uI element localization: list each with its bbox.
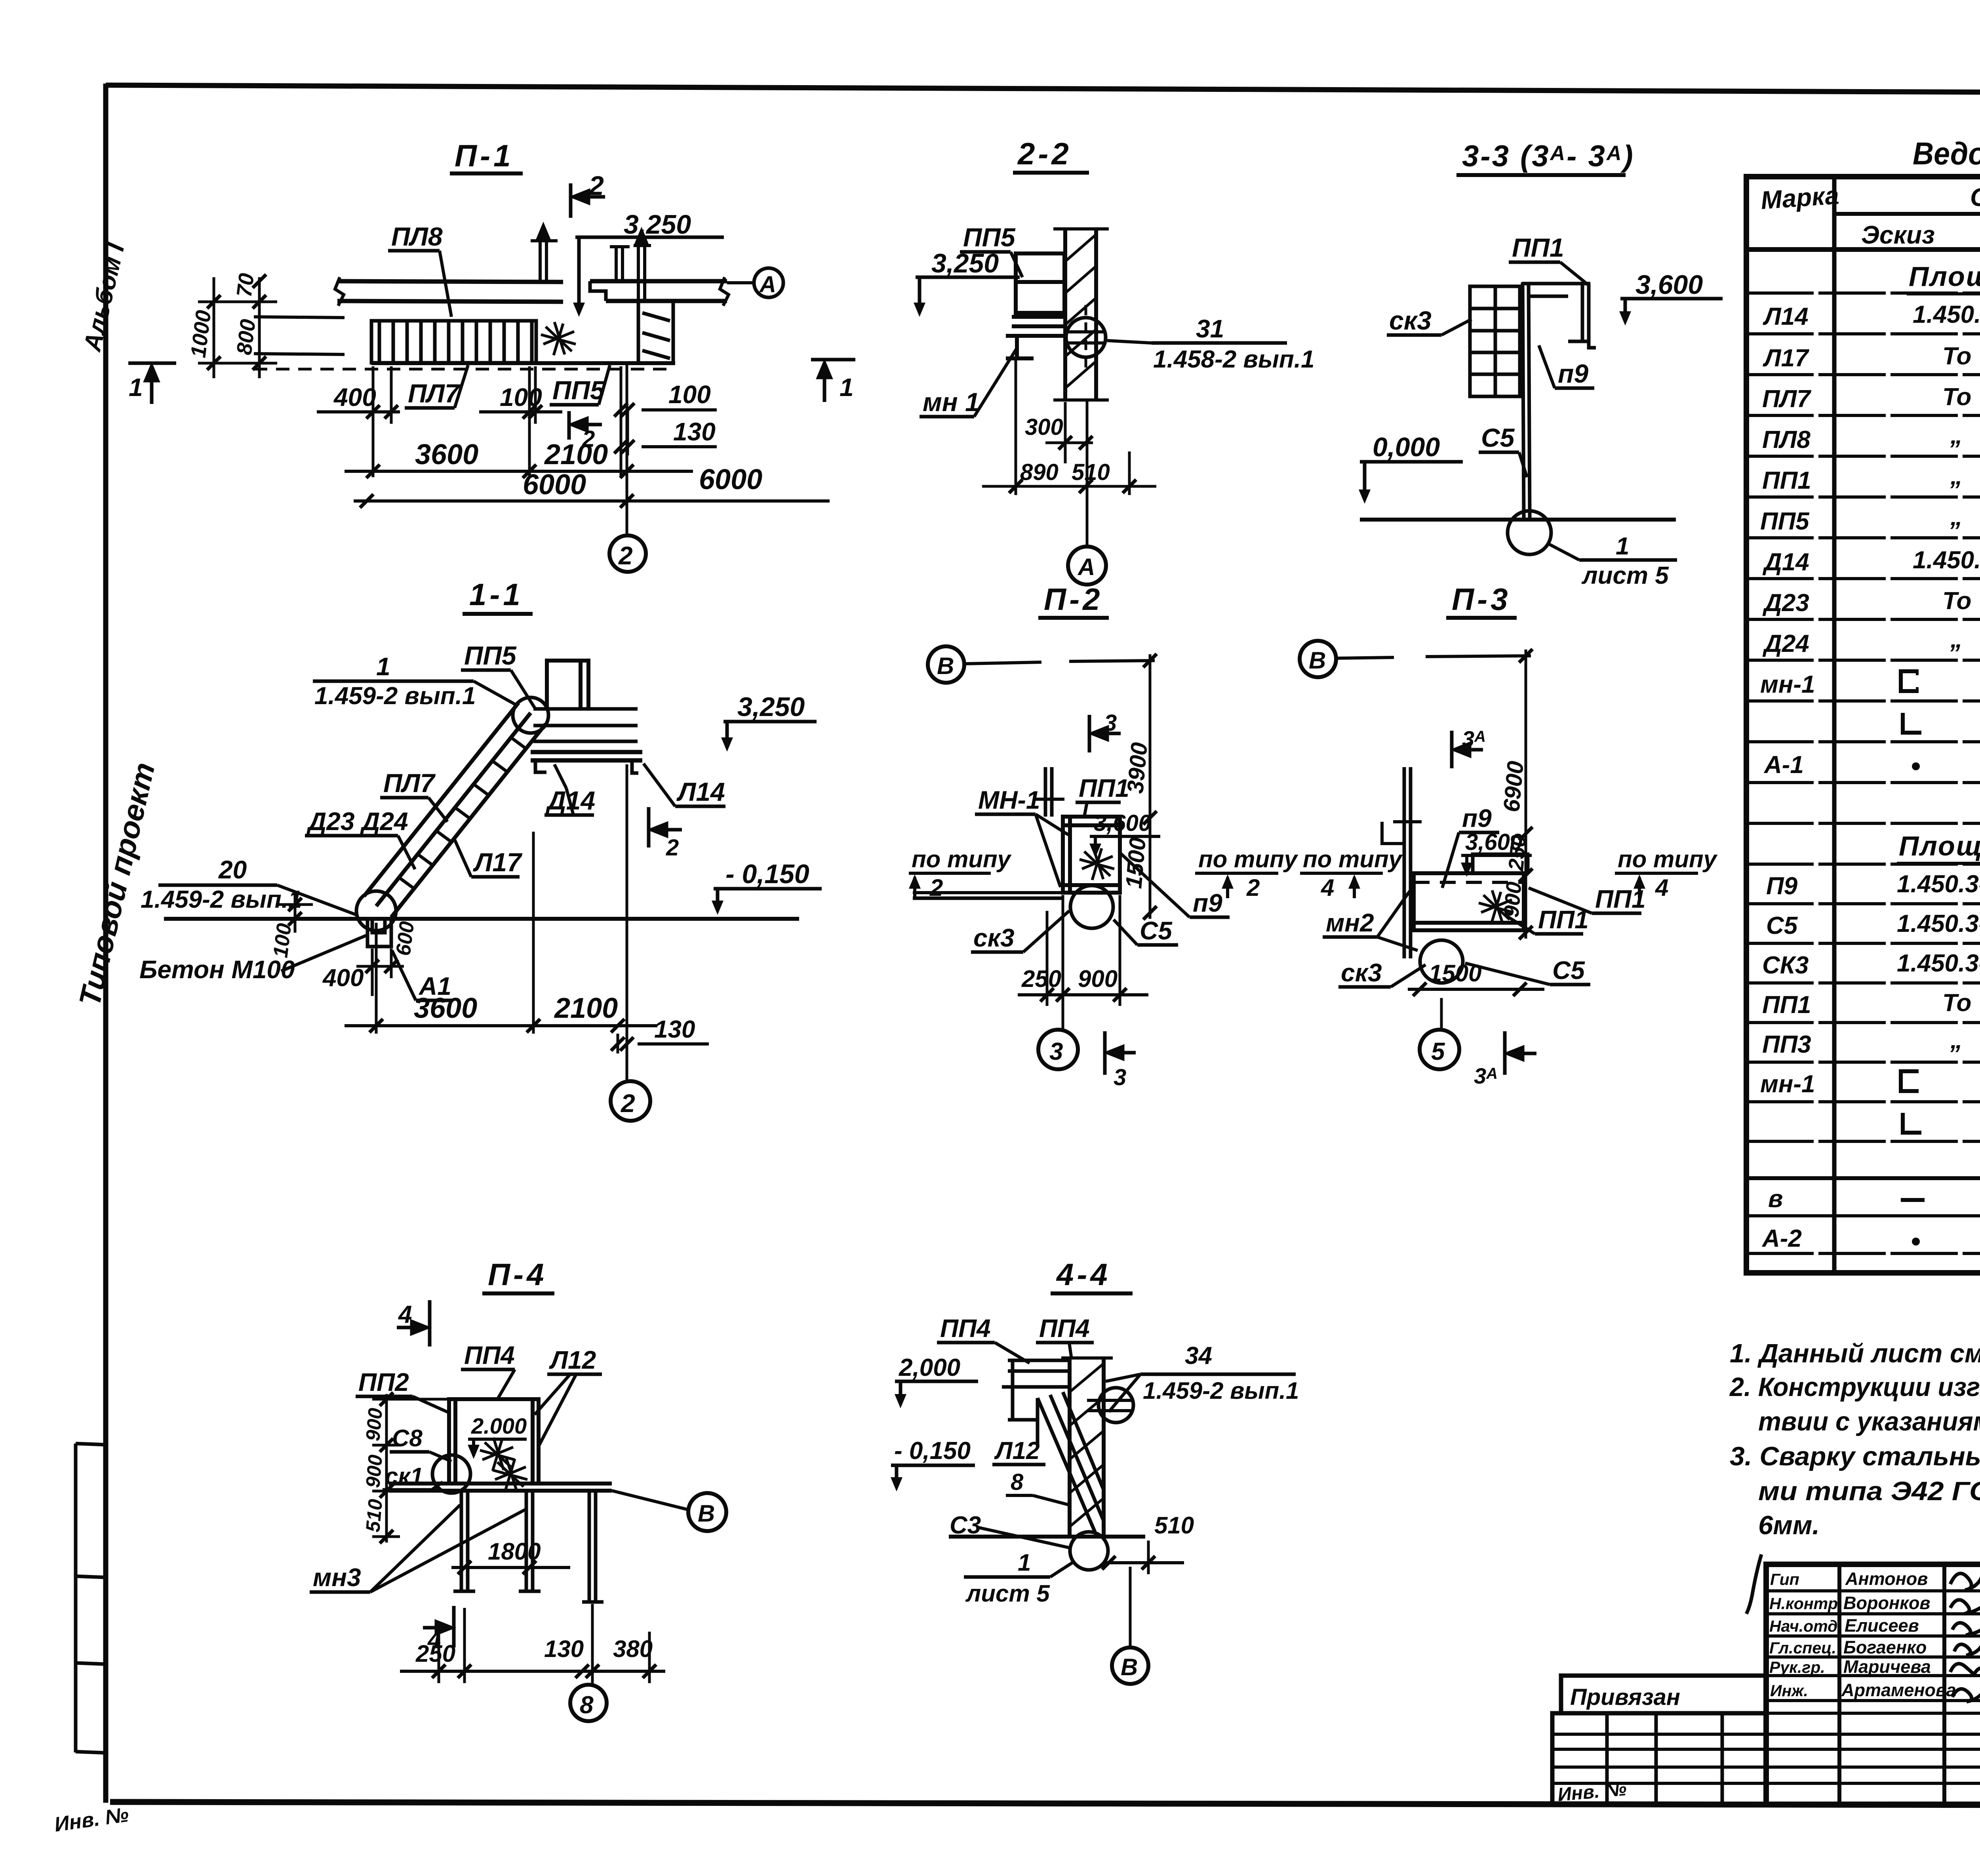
axis line and dims bbox=[626, 764, 628, 1081]
svg-text:А: А bbox=[759, 272, 776, 297]
platform post bbox=[547, 661, 588, 709]
svg-text:п9: п9 bbox=[1193, 889, 1222, 917]
channel sketch МН-1 second bbox=[1901, 1071, 1925, 1200]
axis 3 circle bbox=[1038, 1030, 1078, 1069]
svg-text:ск3: ск3 bbox=[973, 924, 1015, 952]
svg-text:1.459-2 вып.1: 1.459-2 вып.1 bbox=[141, 886, 302, 913]
weld circle bbox=[1508, 511, 1551, 554]
platform box bbox=[1414, 873, 1524, 930]
axis line and А circle bbox=[1086, 402, 1089, 546]
svg-text:Артаменова: Артаменова bbox=[1841, 1680, 1956, 1700]
svg-text:2-2: 2-2 bbox=[1017, 136, 1072, 171]
svg-text:1.450.3-3, вып. 2: 1.450.3-3, вып. 2 bbox=[1897, 870, 1980, 898]
vertical dim 3900 1500 bbox=[1149, 654, 1152, 919]
svg-text:ПП1: ПП1 bbox=[1512, 233, 1564, 262]
svg-text:ПП1: ПП1 bbox=[1762, 991, 1811, 1019]
svg-text:В: В bbox=[937, 653, 954, 679]
svg-text:Бетон М100: Бетон М100 bbox=[139, 955, 295, 984]
svg-text:400: 400 bbox=[322, 964, 364, 992]
platform railing and deck bbox=[531, 709, 642, 773]
svg-text:2: 2 bbox=[588, 171, 604, 201]
svg-text:Рук.гр.: Рук.гр. bbox=[1769, 1658, 1825, 1676]
svg-text:6900: 6900 bbox=[1498, 760, 1529, 813]
table column line Марка bbox=[1832, 177, 1837, 1273]
svg-text:Елисеев: Елисеев bbox=[1845, 1615, 1919, 1636]
svg-text:Привязан: Привязан bbox=[1570, 1684, 1680, 1710]
vertical dim 100 at node bbox=[277, 891, 313, 933]
page frame left bbox=[103, 84, 109, 1803]
svg-text:- 0,150: - 0,150 bbox=[725, 859, 809, 889]
section mark 2 bottom bbox=[569, 411, 602, 440]
svg-text:ПЛ7: ПЛ7 bbox=[383, 768, 436, 798]
post bbox=[1403, 767, 1406, 958]
row lines section 1 bbox=[1746, 291, 1980, 295]
svg-text:В: В bbox=[698, 1500, 715, 1527]
svg-text:2100: 2100 bbox=[554, 992, 618, 1024]
svg-text:Л14: Л14 bbox=[1763, 303, 1809, 330]
weld circle П-4 bbox=[432, 1455, 470, 1493]
channel sketch МН-1 bbox=[1901, 671, 1921, 733]
angle sketch L bbox=[1903, 713, 1921, 733]
svg-text:380: 380 bbox=[613, 1636, 653, 1662]
svg-text:3: 3 bbox=[1114, 1065, 1126, 1090]
svg-text:900: 900 bbox=[1078, 966, 1118, 992]
ground line bbox=[164, 917, 799, 921]
svg-text:4: 4 bbox=[398, 1301, 412, 1328]
svg-text:С5: С5 bbox=[1481, 423, 1515, 452]
page frame bottom bbox=[110, 1802, 1980, 1806]
svg-text:А: А bbox=[1077, 554, 1095, 580]
anchor bolt circle 4-4 bbox=[1099, 1388, 1133, 1423]
svg-text:3: 3 bbox=[1104, 710, 1117, 736]
rebar dot А-2 bbox=[1912, 1238, 1920, 1246]
svg-text:Антонов: Антонов bbox=[1845, 1569, 1928, 1589]
svg-text:1: 1 bbox=[129, 373, 143, 402]
svg-text:8: 8 bbox=[1011, 1469, 1024, 1495]
section mark 1 left bbox=[128, 363, 176, 404]
svg-text:мн 1: мн 1 bbox=[923, 387, 980, 417]
svg-text:Л17: Л17 bbox=[1763, 345, 1809, 372]
axis В circle bottom bbox=[1112, 1647, 1148, 1684]
svg-text:А-1: А-1 bbox=[1763, 751, 1804, 779]
post bbox=[1523, 282, 1524, 520]
svg-text:ПП5: ПП5 bbox=[464, 641, 517, 670]
svg-text:8: 8 bbox=[580, 1691, 594, 1719]
beam line left bbox=[913, 897, 1063, 900]
top bracket 4-4 bbox=[1002, 1360, 1070, 1420]
svg-text:6мм.: 6мм. bbox=[1758, 1510, 1820, 1540]
svg-text:ПП3: ПП3 bbox=[1762, 1031, 1811, 1058]
svg-text:20: 20 bbox=[218, 855, 247, 884]
svg-text:1800: 1800 bbox=[488, 1538, 541, 1565]
svg-text:Сечение: Сечение bbox=[1970, 183, 1980, 211]
diagonal braces bbox=[1038, 1392, 1104, 1532]
anchor bolt circle bbox=[1066, 318, 1106, 357]
foundation pad bbox=[367, 919, 391, 947]
svg-text:2: 2 bbox=[618, 541, 633, 570]
svg-text:4: 4 bbox=[1655, 874, 1668, 901]
svg-text:С5: С5 bbox=[1766, 912, 1798, 939]
svg-text:„: „ bbox=[1950, 503, 1963, 531]
svg-text:3,250: 3,250 bbox=[931, 248, 999, 278]
svg-text:Гл.спец.: Гл.спец. bbox=[1769, 1639, 1836, 1657]
dims 890 510 bbox=[982, 360, 1156, 495]
column hatched bbox=[1061, 1358, 1113, 1537]
svg-text:То: То bbox=[1942, 989, 1971, 1017]
svg-text:900: 900 bbox=[362, 1454, 386, 1489]
svg-text:1: 1 bbox=[840, 373, 854, 402]
svg-text:ПП5: ПП5 bbox=[963, 223, 1016, 252]
stray pen stroke left of ГИП bbox=[1746, 1554, 1761, 1614]
svg-text:1: 1 bbox=[1018, 1549, 1031, 1576]
weld circle П-2 bbox=[1070, 886, 1113, 928]
top bracket П9 bbox=[1522, 284, 1596, 348]
svg-text:ПП4: ПП4 bbox=[464, 1341, 515, 1369]
svg-text:31: 31 bbox=[1196, 314, 1224, 343]
title block outer border bbox=[1766, 1564, 1980, 1804]
svg-text:800: 800 bbox=[232, 318, 260, 356]
svg-text:3,600: 3,600 bbox=[1635, 270, 1703, 300]
axis 2 circle bottom bbox=[611, 1081, 650, 1121]
svg-text:ПП5: ПП5 bbox=[552, 375, 605, 405]
svg-text:3,600: 3,600 bbox=[1465, 829, 1523, 855]
svg-text:по типу: по типу bbox=[1618, 846, 1718, 872]
svg-text:2.000: 2.000 bbox=[471, 1413, 527, 1438]
svg-text:510: 510 bbox=[362, 1498, 386, 1533]
svg-text:1. Данный лист см. с листо: 1. Данный лист см. с листом КМ-5. bbox=[1730, 1339, 1980, 1368]
svg-text:100: 100 bbox=[668, 380, 711, 409]
ground line bbox=[1360, 518, 1676, 522]
svg-text:Марка: Марка bbox=[1760, 181, 1840, 215]
svg-text:Нач.отд.: Нач.отд. bbox=[1769, 1617, 1842, 1635]
svg-text:п9: п9 bbox=[1558, 359, 1588, 388]
svg-text:2: 2 bbox=[621, 1089, 635, 1118]
weld circle top node bbox=[513, 697, 548, 733]
svg-text:А-2: А-2 bbox=[1761, 1225, 1802, 1252]
slab left band bbox=[335, 277, 563, 306]
section mark 2 right bbox=[649, 807, 682, 848]
svg-text:2: 2 bbox=[666, 835, 679, 861]
svg-text:мн-1: мн-1 bbox=[1760, 1070, 1815, 1098]
svg-text:Эскиз: Эскиз bbox=[1861, 221, 1935, 249]
svg-text:ПП5: ПП5 bbox=[1760, 508, 1810, 535]
svg-text:Л12: Л12 bbox=[994, 1437, 1040, 1465]
hidden dashed line bbox=[254, 368, 673, 371]
svg-text:ск3: ск3 bbox=[1341, 958, 1382, 987]
svg-text:Л17: Л17 bbox=[473, 848, 523, 877]
svg-text:890: 890 bbox=[1020, 459, 1059, 485]
table rows section 1 texts bbox=[1760, 301, 1980, 782]
svg-text:Л12: Л12 bbox=[549, 1346, 596, 1374]
svg-text:мн3: мн3 bbox=[313, 1563, 361, 1592]
section mark 3А bottom bbox=[1505, 1031, 1536, 1075]
svg-text:1.450.3-3, вып. 2: 1.450.3-3, вып. 2 bbox=[1897, 950, 1980, 977]
svg-text:п9: п9 bbox=[1462, 804, 1492, 832]
svg-text:1: 1 bbox=[376, 652, 390, 681]
svg-text:130: 130 bbox=[673, 417, 716, 446]
svg-text:5: 5 bbox=[1431, 1038, 1445, 1065]
left vertical dims 1000 800 70 bbox=[198, 277, 277, 378]
axis В circle left bbox=[1300, 641, 1336, 677]
svg-text:ПЛ8: ПЛ8 bbox=[1762, 426, 1811, 453]
section mark 4 top bbox=[397, 1300, 430, 1347]
svg-text:2: 2 bbox=[1246, 874, 1260, 901]
svg-text:100: 100 bbox=[269, 922, 296, 959]
svg-text:510: 510 bbox=[1154, 1512, 1194, 1539]
svg-text:2. Конструкции изготовляются: 2. Конструкции изготовляются и монтируют… bbox=[1729, 1372, 1980, 1402]
svg-text:мн-1: мн-1 bbox=[1760, 671, 1815, 698]
svg-text:1-1: 1-1 bbox=[469, 577, 524, 612]
axis А circle bbox=[754, 268, 783, 297]
svg-text:3. Сварку стальных конструкц: 3. Сварку стальных конструкций производи… bbox=[1730, 1442, 1980, 1471]
table outer border bbox=[1746, 177, 1980, 1273]
stair stringer bbox=[364, 703, 546, 917]
svg-text:3600: 3600 bbox=[415, 439, 478, 470]
vertical dim 6900 250 900 bbox=[1525, 649, 1527, 939]
svg-text:С3: С3 bbox=[950, 1512, 981, 1539]
platform box bbox=[1063, 817, 1120, 893]
railing post middle bbox=[531, 226, 558, 281]
signature area row lines bbox=[1766, 1589, 1980, 1592]
rebar dot А-1 bbox=[1912, 762, 1920, 770]
stringer rungs bbox=[399, 737, 526, 889]
svg-text:П-2: П-2 bbox=[1044, 582, 1103, 617]
svg-text:ПП1: ПП1 bbox=[1079, 774, 1129, 802]
svg-text:Маричева: Маричева bbox=[1843, 1657, 1931, 1677]
svg-text:ПП4: ПП4 bbox=[1039, 1314, 1090, 1343]
svg-text:лист 5: лист 5 bbox=[1581, 562, 1669, 589]
stair flight plan bbox=[371, 321, 536, 363]
section mark 3 bottom bbox=[1105, 1031, 1136, 1075]
svg-text:П-3: П-3 bbox=[1452, 582, 1511, 617]
svg-text:С5: С5 bbox=[1140, 916, 1173, 945]
table header labels bbox=[1760, 181, 1980, 249]
svg-text:3600: 3600 bbox=[414, 992, 477, 1024]
section mark 3А top bbox=[1452, 731, 1483, 768]
svg-text:ПП4: ПП4 bbox=[940, 1314, 991, 1343]
svg-text:В: В bbox=[1309, 647, 1326, 674]
svg-text:мн2: мн2 bbox=[1326, 908, 1374, 937]
wall hatched bbox=[1053, 229, 1109, 400]
svg-text:2,000: 2,000 bbox=[899, 1354, 960, 1381]
landing connector ПП1 bbox=[638, 302, 673, 362]
right top bar bbox=[1473, 854, 1528, 873]
svg-text:„: „ bbox=[1950, 463, 1963, 490]
svg-text:34: 34 bbox=[1185, 1342, 1212, 1369]
svg-text:Воронков: Воронков bbox=[1843, 1593, 1930, 1613]
svg-text:1500: 1500 bbox=[1121, 836, 1151, 889]
svg-text:1.450.3-3, вып. 1: 1.450.3-3, вып. 1 bbox=[1897, 910, 1980, 937]
wall edge lines left bbox=[254, 317, 345, 354]
svg-text:250: 250 bbox=[1021, 966, 1061, 992]
weld circle П-3 bbox=[1420, 940, 1463, 983]
svg-text:„: „ bbox=[1950, 1027, 1963, 1054]
svg-text:250: 250 bbox=[415, 1640, 455, 1667]
svg-text:То: То bbox=[1942, 343, 1971, 370]
svg-text:ми типа Э42 ГОСТ 9467-75.: ми типа Э42 ГОСТ 9467-75. Толщину шва пр… bbox=[1758, 1476, 1980, 1506]
svg-text:Площадка П-2: Площадка П-2 bbox=[1899, 830, 1980, 861]
svg-text:300: 300 bbox=[1025, 414, 1063, 440]
svg-text:1.450.3-3, вып. 1: 1.450.3-3, вып. 1 bbox=[1913, 547, 1980, 574]
section mark 4 bottom bbox=[423, 1606, 454, 1647]
left margin registration boxes bbox=[76, 1444, 106, 1753]
axis 2 circle bbox=[609, 535, 646, 572]
svg-text:900: 900 bbox=[362, 1407, 386, 1442]
platform box П-4 bbox=[449, 1399, 539, 1484]
svg-text:2100: 2100 bbox=[544, 439, 608, 470]
signature table name labels bbox=[1841, 1569, 1956, 1700]
svg-text:Д23: Д23 bbox=[1762, 589, 1809, 617]
svg-text:П-4: П-4 bbox=[488, 1257, 547, 1292]
svg-text:4: 4 bbox=[1321, 874, 1334, 901]
svg-text:4-4: 4-4 bbox=[1056, 1257, 1111, 1292]
svg-text:по типу: по типу bbox=[1198, 846, 1298, 872]
weld circle 4-4 bbox=[1070, 1532, 1108, 1570]
svg-text:1.450.3-3, вып. 2: 1.450.3-3, вып. 2 bbox=[1913, 301, 1980, 328]
svg-text:130: 130 bbox=[544, 1636, 584, 1662]
axis 8 circle bottom bbox=[570, 1685, 607, 1721]
left dims 900 900 510 bbox=[385, 1394, 388, 1543]
svg-text:ПП2: ПП2 bbox=[358, 1368, 409, 1396]
svg-text:130: 130 bbox=[654, 1016, 695, 1043]
svg-text:- 0,150: - 0,150 bbox=[894, 1437, 971, 1465]
svg-text:400: 400 bbox=[333, 383, 376, 411]
svg-text:П-1: П-1 bbox=[455, 138, 514, 173]
axis В circle right bbox=[688, 1493, 726, 1531]
svg-text:Д24: Д24 bbox=[1762, 630, 1809, 657]
plate dash for в bbox=[1901, 1198, 1925, 1202]
signature area column lines bbox=[1837, 1564, 1841, 1804]
header split line under Сечение/Усилия bbox=[1834, 212, 1980, 216]
axis В circle left bbox=[928, 646, 964, 683]
svg-text:С8: С8 bbox=[392, 1425, 423, 1451]
section mark 3 top bbox=[1089, 715, 1121, 752]
svg-text:Л14: Л14 bbox=[676, 777, 725, 806]
signature table role labels bbox=[1769, 1570, 1842, 1700]
opening scribble bbox=[541, 322, 576, 355]
svg-text:ПЛ8: ПЛ8 bbox=[391, 222, 443, 251]
beam lines bbox=[389, 1482, 612, 1486]
svg-text:ПП1: ПП1 bbox=[1762, 467, 1811, 494]
svg-text:„: „ bbox=[1950, 422, 1963, 449]
svg-text:70: 70 bbox=[232, 272, 259, 299]
svg-text:6000: 6000 bbox=[523, 469, 586, 501]
grating bbox=[1470, 286, 1520, 396]
bracket plate ПП5 bbox=[1006, 253, 1064, 358]
svg-text:Богаенко: Богаенко bbox=[1843, 1637, 1927, 1657]
post left bbox=[1044, 767, 1047, 817]
svg-text:3,250: 3,250 bbox=[624, 210, 691, 240]
svg-text:Д23 Д24: Д23 Д24 bbox=[306, 807, 408, 836]
svg-text:ск3: ск3 bbox=[1389, 306, 1432, 335]
weld circle bottom node bbox=[356, 891, 396, 931]
page frame top bbox=[106, 85, 1980, 94]
svg-text:1.459-2 вып.1: 1.459-2 вып.1 bbox=[1143, 1377, 1299, 1404]
svg-text:твии с указаниями серии 1.4: твии с указаниями серии 1.450.3-3, вып. … bbox=[1758, 1407, 1980, 1436]
table rows section 2 texts bbox=[1760, 870, 1980, 1256]
svg-text:0,000: 0,000 bbox=[1373, 432, 1440, 462]
handwritten signatures squiggles bbox=[1950, 1567, 1980, 1712]
svg-text:Инж.: Инж. bbox=[1770, 1682, 1808, 1700]
deck bottom line bbox=[371, 361, 675, 365]
section mark 1 right bbox=[811, 360, 855, 402]
railing posts right bbox=[610, 231, 651, 302]
svg-text:лист 5: лист 5 bbox=[965, 1580, 1050, 1607]
svg-text:ПЛ7: ПЛ7 bbox=[1762, 385, 1811, 413]
svg-text:1.458-2 вып.1: 1.458-2 вып.1 bbox=[1153, 346, 1314, 373]
svg-text:МН-1: МН-1 bbox=[978, 786, 1040, 814]
axis 5 circle bbox=[1420, 1030, 1459, 1069]
svg-text:3: 3 bbox=[1049, 1038, 1063, 1065]
svg-text:СК3: СК3 bbox=[1762, 952, 1809, 979]
svg-text:в: в bbox=[1768, 1185, 1783, 1213]
svg-text:Площадка П-1: Площадка П-1 bbox=[1909, 261, 1980, 292]
svg-text:по типу: по типу bbox=[912, 846, 1012, 872]
ground line 4-4 bbox=[949, 1535, 1145, 1539]
svg-text:„: „ bbox=[1950, 626, 1963, 653]
svg-text:ПЛ7: ПЛ7 bbox=[408, 379, 461, 408]
svg-text:3,600: 3,600 bbox=[1094, 810, 1151, 836]
header bottom line bbox=[1746, 247, 1980, 252]
svg-text:6000: 6000 bbox=[699, 464, 762, 495]
row lines section 2 bbox=[1746, 863, 1980, 866]
svg-text:То: То bbox=[1942, 587, 1971, 615]
svg-text:То: То bbox=[1942, 383, 1971, 411]
svg-text:П9: П9 bbox=[1766, 872, 1798, 900]
svg-text:по типу: по типу bbox=[1303, 846, 1403, 872]
section mark 2 top bbox=[571, 183, 605, 218]
svg-text:С5: С5 bbox=[1552, 956, 1585, 985]
posts under beam bbox=[453, 1491, 604, 1602]
svg-text:Д14: Д14 bbox=[1762, 549, 1809, 576]
svg-text:Н.контр.: Н.контр. bbox=[1769, 1594, 1842, 1613]
svg-text:3,250: 3,250 bbox=[737, 692, 805, 722]
slab right band bbox=[590, 277, 729, 306]
attachment table (Привязан) bbox=[1552, 1676, 1766, 1804]
svg-text:Гип: Гип bbox=[1770, 1570, 1799, 1588]
svg-text:1: 1 bbox=[1616, 533, 1629, 560]
svg-text:В: В bbox=[1121, 1654, 1138, 1680]
svg-text:1.459-2 вып.1: 1.459-2 вып.1 bbox=[314, 682, 476, 710]
svg-text:600: 600 bbox=[392, 920, 419, 957]
svg-text:Ведомость элементов (начало): Ведомость элементов (начало) bbox=[1913, 136, 1980, 171]
